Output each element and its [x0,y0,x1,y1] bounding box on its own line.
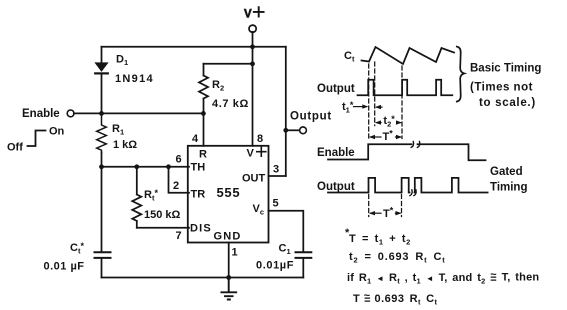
svg-text:7: 7 [176,230,182,242]
V+ terminal [249,25,256,32]
Ct sawtooth waveform [362,47,455,64]
t2 dimension [383,114,395,129]
to scale caption [479,97,536,109]
svg-text:TR: TR [191,189,206,201]
V+ label [244,9,252,21]
svg-text:Output: Output [317,181,355,193]
svg-text:Timing: Timing [490,182,527,194]
capacitor C1 [296,252,312,258]
wire Enable line [74,112,204,114]
output waveform (gated) [328,178,488,193]
Timing caption [490,182,527,194]
ground [221,278,236,300]
svg-text:1 kΩ: 1 kΩ [113,139,137,151]
output waveform (basic) [358,80,453,96]
wire C1 to bottom rail [302,259,304,278]
Output terminal [300,127,307,134]
wire TR branch [169,167,190,193]
svg-text:Enable: Enable [22,108,60,120]
wire TH line [102,166,190,168]
T dimension (basic) [383,129,394,144]
pin 5 number [273,198,279,210]
Enable label [22,108,60,120]
svg-text:0.01 µF: 0.01 µF [44,261,85,273]
wire Rt to DIS [137,227,189,229]
resistor R1 [97,113,107,152]
svg-text:Output: Output [290,111,332,123]
svg-text:On: On [49,126,65,138]
R2 label [212,79,224,93]
wire R1 to TH node [101,153,103,167]
svg-text:5: 5 [273,198,279,210]
C1 value [256,260,294,272]
node output junction [283,128,288,133]
pin GND label [214,231,242,243]
wire Vc pin 5 to C1 [269,211,304,252]
svg-text:6: 6 [176,154,182,166]
svg-text:4: 4 [192,133,199,145]
svg-text:t2 = 0.693 Rt Ct: t2 = 0.693 Rt Ct [349,251,446,265]
pin TH label [191,162,206,174]
Output label (gated) [317,181,355,193]
555 label [217,185,241,200]
1 kOhm value [113,139,137,151]
pin 6 number [176,154,182,166]
formula T = t1 + t2 [345,227,411,247]
150 kOhm value [144,209,181,221]
Enable label (gated) [317,147,355,159]
node Ct waveform label [344,50,355,64]
wire OUT pin 3 [269,175,286,177]
formula T = 0.693 Rt Ct [353,290,438,307]
svg-text:555: 555 [217,185,241,200]
pin 1 number [232,247,238,259]
wire V+ stem to pin 8 [252,32,254,146]
node R2-V+ junction [250,61,255,66]
brace [457,47,464,102]
svg-text:Gated: Gated [490,166,523,178]
Ct label [70,241,84,256]
svg-text:2: 2 [173,180,179,192]
node V+ rail junction [250,44,255,49]
wire to Output terminal [286,129,300,131]
wire bottom rail [102,277,304,279]
off-on step symbol [28,131,46,147]
1N914 value [115,73,154,85]
svg-text:Output: Output [317,83,355,95]
break mark enable [411,142,420,148]
wire D1 branch [101,47,103,114]
Rt label [144,188,158,203]
Basic Timing caption [470,63,541,75]
enable waveform [328,144,486,160]
svg-text:GND: GND [214,231,242,243]
pin 3 number [273,164,279,176]
C1 label [279,243,291,257]
pin Vc label [253,203,265,217]
Output label (basic timing) [317,83,355,95]
wire left vertical to Ct [101,167,103,278]
node enable-D1 junction [99,111,104,116]
svg-text:Enable: Enable [317,147,355,159]
svg-text:V: V [244,9,252,21]
svg-text:T~=0.693 Rt Ct: T~=0.693 Rt Ct [353,290,438,307]
node TH-left junction [99,164,104,169]
formula t2 = 0.693 Rt Ct [349,251,446,265]
node Rt junction [134,164,139,169]
svg-text:OUT: OUT [242,173,266,185]
pin R label [199,149,207,161]
pin 2 number [173,180,179,192]
node ground junction [226,275,231,280]
wire output vertical [285,47,287,176]
svg-text:4.7 kΩ: 4.7 kΩ [212,98,249,110]
pin DIS label [190,223,212,235]
svg-text:3: 3 [273,164,279,176]
pin OUT label [242,173,266,185]
svg-text:V: V [247,148,255,160]
wire R2 bottom to pin 4 [203,113,205,145]
pin 4 number [192,133,199,145]
pin TR label [191,189,206,201]
svg-text:8: 8 [257,133,263,145]
svg-text:Off: Off [7,142,23,154]
Enable terminal [67,110,74,117]
svg-text:150 kΩ: 150 kΩ [144,209,181,221]
formula if line [347,269,539,286]
Off label [7,142,23,154]
T dimension (gated) [383,206,394,221]
D1 label [116,54,128,68]
svg-text:if R1 ◄ Rt , t1 ◄ T, and t2 ~=: if R1 ◄ Rt , t1 ◄ T, and t2 ~= T, then [347,269,539,286]
capacitor Ct [95,252,111,258]
svg-text:to scale.): to scale.) [479,97,536,109]
dashed marker lines (gated) [369,195,402,217]
svg-text:1N914: 1N914 [115,73,154,85]
wire R2 top to V+ [204,63,253,65]
pin V+ label [247,148,255,160]
resistor R2 [199,64,208,114]
svg-text:DIS: DIS [190,223,212,235]
break mark gated output [410,190,416,196]
Gated caption [490,166,523,178]
wire GND pin 1 [228,243,230,278]
svg-text:Basic Timing: Basic Timing [470,63,541,75]
wire top rail [102,46,286,48]
Output label (circuit) [290,111,332,123]
node enable-R2 junction [201,111,206,116]
node TR junction [166,164,171,169]
dashed marker lines (basic) [369,62,402,139]
R1 label [112,123,124,137]
On label [49,126,65,138]
diode D1 [96,63,108,71]
pin 8 number [257,133,263,145]
svg-text:0.01µF: 0.01µF [256,260,294,272]
t1 dimension [342,100,354,115]
svg-text:TH: TH [191,162,206,174]
resistor Rt [132,167,141,228]
pin 7 number [176,230,182,242]
IC U1 555 timer [188,146,269,243]
svg-text:R: R [199,149,207,161]
svg-text:(Times not: (Times not [470,82,533,94]
Times not caption [470,82,533,94]
4.7 kOhm value [212,98,249,110]
Ct value [44,261,85,273]
svg-text:1: 1 [232,247,238,259]
